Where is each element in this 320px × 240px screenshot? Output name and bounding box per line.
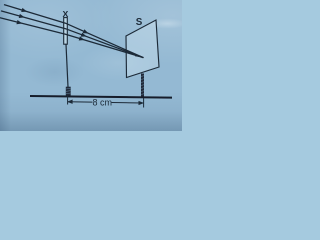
ray 1 refracted arrowhead [83, 29, 90, 35]
label S [136, 17, 143, 28]
dimension right arrowhead [139, 101, 145, 105]
ray 1 incident arrowhead [21, 8, 28, 14]
ray 2 incident arrowhead [19, 14, 26, 20]
screen S (parallelogram) [126, 20, 159, 78]
svg-text:X: X [63, 9, 69, 19]
lens stand rod [66, 44, 68, 87]
screen stand rod (hatched) [141, 74, 144, 99]
dimension line right segment [112, 102, 144, 105]
ray 2 (middle) [2, 11, 144, 58]
label 8 cm [93, 98, 113, 108]
svg-text:S: S [136, 17, 143, 28]
dimension line left segment [68, 101, 93, 103]
ray 3 (bottom) [0, 18, 143, 58]
ray 1 (top) [5, 5, 144, 58]
ray 3 refracted arrowhead [79, 36, 86, 42]
ray 3 incident arrowhead [16, 20, 22, 26]
dimension right extension tick [143, 98, 145, 108]
ray 2 refracted arrowhead [81, 33, 88, 39]
dimension left arrowhead [67, 100, 73, 104]
lens stand base (hatched block) [66, 87, 71, 97]
bench line [30, 96, 172, 98]
lens X (thin rectangle) [64, 18, 68, 45]
svg-text:8 cm: 8 cm [93, 98, 113, 108]
dimension left extension tick [67, 95, 69, 105]
image point (converging wedge tip) [135, 54, 143, 58]
label X [63, 9, 69, 19]
